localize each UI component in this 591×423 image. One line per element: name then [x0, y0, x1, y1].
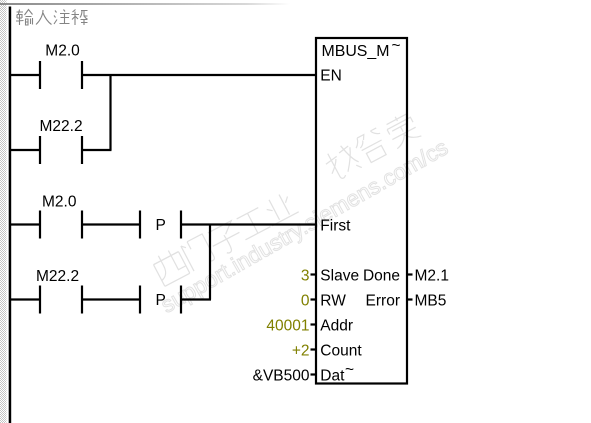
svg-text:Dat: Dat — [320, 367, 345, 384]
svg-text:Slave: Slave — [320, 267, 359, 284]
pin stub Dat — [311, 373, 317, 375]
svg-text:P: P — [156, 217, 166, 234]
pin stub Slave — [311, 273, 317, 275]
function block MBUS_M box — [316, 38, 407, 384]
svg-text:+2: +2 — [292, 342, 310, 359]
contact M2.0 (network input) — [39, 61, 41, 89]
wire rung1 to block EN — [82, 74, 316, 76]
wire rung3 left — [10, 223, 40, 225]
svg-text:MB5: MB5 — [415, 292, 447, 309]
svg-text:M22.2: M22.2 — [36, 268, 79, 285]
svg-text:0: 0 — [301, 292, 310, 309]
wire rung4 mid — [82, 298, 140, 300]
wire rung4 to branch — [181, 298, 211, 300]
contact M22.2 — [39, 136, 41, 164]
pin stub RW — [311, 298, 317, 300]
contact P (positive edge) rung3 — [139, 211, 141, 239]
watermark CJK line 西门子工业 — [151, 189, 301, 287]
svg-text:M2.0: M2.0 — [42, 194, 77, 211]
OR branch vertical net2 — [209, 225, 211, 300]
wire rung3 to block First — [181, 223, 316, 225]
wire rung4 left — [10, 298, 40, 300]
svg-text:MBUS_M: MBUS_M — [322, 43, 390, 60]
pin stub Count — [311, 348, 317, 350]
wire rung1 left — [10, 74, 40, 76]
contact P (positive edge) rung4 — [139, 286, 141, 314]
svg-text:&VB500: &VB500 — [253, 367, 310, 384]
OR branch vertical net1 — [109, 75, 111, 150]
svg-text:Addr: Addr — [320, 317, 353, 334]
svg-text:40001: 40001 — [266, 317, 309, 334]
svg-text:M22.2: M22.2 — [40, 118, 83, 135]
contact M22.2 (second) — [39, 286, 41, 314]
pin stub Addr — [311, 323, 317, 325]
left power rail — [9, 7, 12, 423]
svg-text:P: P — [156, 292, 166, 309]
svg-text:~: ~ — [392, 38, 401, 55]
watermark CJK line 找答案 — [322, 110, 422, 182]
wire rung2 to branch — [82, 149, 112, 151]
contact M2.0 (second) — [39, 211, 41, 239]
hatched drag bar — [0, 0, 7, 423]
wire rung3 mid — [82, 223, 140, 225]
pin stub Error — [407, 298, 413, 300]
top separator line — [0, 3, 290, 5]
wire rung2 left — [10, 149, 40, 151]
svg-text:~: ~ — [345, 361, 354, 378]
svg-text:3: 3 — [301, 267, 310, 284]
pin stub Done — [407, 273, 413, 275]
svg-text:Count: Count — [320, 342, 362, 359]
watermark url support.industry.siemens.com/cs — [157, 135, 453, 318]
svg-text:EN: EN — [320, 67, 342, 84]
svg-text:Error: Error — [366, 292, 400, 309]
svg-text:Done: Done — [363, 267, 400, 284]
network comment 输入注释 — [16, 10, 88, 26]
svg-text:M2.1: M2.1 — [415, 267, 449, 284]
svg-text:First: First — [320, 217, 351, 234]
svg-text:M2.0: M2.0 — [45, 43, 80, 60]
svg-text:RW: RW — [320, 292, 346, 309]
